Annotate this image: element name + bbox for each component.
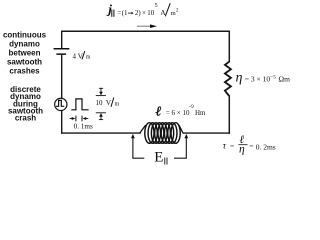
svg-text:(1: (1 [122, 9, 128, 17]
svg-text:m: m [115, 102, 120, 108]
E parallel bracket annotation [131, 134, 188, 158]
svg-text:= 6 × 10: = 6 × 10 [166, 109, 190, 117]
svg-text:sawtooth: sawtooth [7, 57, 42, 66]
svg-text:crash: crash [15, 114, 36, 123]
svg-text:η: η [239, 143, 245, 155]
label: 10 V/m [96, 98, 120, 108]
pulse waveform annotation [71, 99, 88, 110]
pulse width dimension arrows [70, 116, 89, 122]
inductor L (coil) [140, 123, 183, 144]
svg-text:between: between [8, 48, 40, 57]
svg-text:5: 5 [155, 3, 158, 9]
wire left lower [61, 110, 63, 134]
svg-text:−5: −5 [270, 74, 276, 80]
svg-text:-9: -9 [189, 104, 194, 110]
svg-text:0. 1ms: 0. 1ms [74, 123, 93, 131]
wire right lower [228, 96, 230, 134]
wire bottom left [61, 132, 141, 134]
label: continuous dynamo between sawtooth crashes [3, 31, 47, 76]
svg-text:E: E [154, 150, 163, 166]
svg-text:continuous: continuous [3, 31, 47, 40]
label: tau = l/eta = 0.2 ms [223, 134, 276, 156]
svg-text:0. 2ms: 0. 2ms [256, 143, 276, 152]
svg-text:τ: τ [223, 141, 227, 151]
wire right upper [228, 31, 230, 62]
svg-text:Ωm: Ωm [279, 75, 291, 84]
label: eta = 3e-5 Ohm m [236, 70, 291, 85]
svg-text:crashes: crashes [9, 66, 40, 75]
svg-text:m: m [86, 55, 91, 61]
label: l = 6e-9 Hm [156, 103, 206, 118]
svg-text:×: × [142, 9, 146, 17]
label: discrete dynamo during sawtooth crash [8, 85, 43, 122]
svg-text:Hm: Hm [195, 109, 206, 117]
svg-text:2): 2) [135, 9, 142, 17]
battery (continuous dynamo source) [54, 48, 70, 55]
svg-text:m: m [171, 10, 176, 17]
label: j parallel formula [106, 2, 179, 18]
pulse height dimension (10 V/m) [96, 88, 106, 119]
wire top [62, 30, 230, 32]
wire left middle [61, 55, 63, 99]
svg-text:= 3 × 10: = 3 × 10 [245, 75, 271, 84]
label: 4 V/m [73, 51, 91, 61]
svg-text:4: 4 [73, 53, 77, 61]
svg-text:dynamo: dynamo [9, 39, 40, 48]
pulse source (discrete dynamo) [55, 98, 67, 110]
svg-text:10: 10 [147, 9, 155, 17]
label: E parallel [154, 150, 167, 166]
wire left upper [61, 31, 63, 49]
resistor eta (zigzag) [225, 62, 231, 96]
svg-text:=: = [230, 142, 234, 151]
svg-text:=: = [249, 142, 253, 151]
svg-text:ℓ: ℓ [156, 103, 162, 118]
wire bottom right [183, 132, 230, 134]
svg-text:10: 10 [96, 99, 104, 107]
svg-text:=: = [117, 9, 121, 17]
svg-text:η: η [236, 70, 243, 85]
current direction arrow [137, 24, 157, 28]
